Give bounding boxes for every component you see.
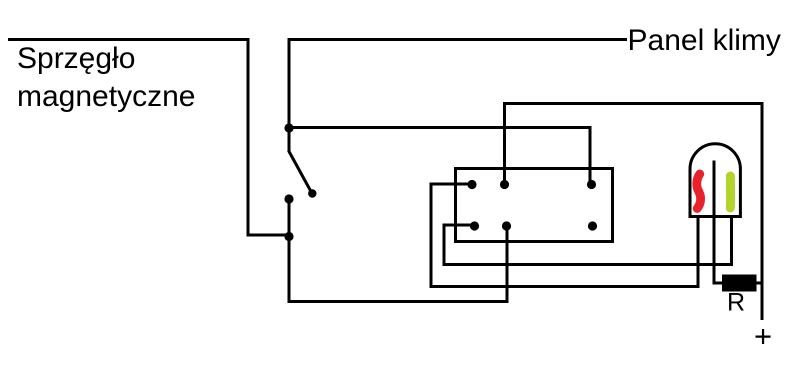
- resistor R body: [723, 275, 757, 291]
- svg-text:Panel klimy: Panel klimy: [628, 24, 781, 57]
- switch S1 common node dot: [284, 123, 293, 132]
- LED D1 red element: [697, 174, 701, 209]
- wire relay pin 5 vertical up: [506, 226, 509, 303]
- svg-text:+: +: [754, 319, 772, 354]
- wire horizontal to LED green lead: [443, 263, 732, 266]
- wire relay pin 2 vertical up: [503, 102, 506, 185]
- wire left vertical down (red lead net): [430, 183, 433, 289]
- LED D1 center electrode: [713, 161, 716, 217]
- wire panel klimy horizontal: [289, 38, 627, 41]
- wire sprzeglo top horizontal: [8, 38, 248, 41]
- node junction switch-sprzeglo dot: [284, 232, 293, 241]
- wire vertical down (green lead net): [443, 224, 446, 266]
- relay pin 3 (top-right): [587, 180, 596, 189]
- wire switch lower contact down to junction: [288, 199, 291, 303]
- wire right rail vertical to plus: [761, 102, 764, 320]
- wire relay pin 4 horizontal left: [444, 224, 475, 227]
- switch S1 lower contact dot: [284, 194, 293, 203]
- wire panel klimy vertical to switch common: [288, 38, 291, 151]
- label Sprzeglo magnetyczne: [17, 42, 195, 113]
- relay pin 1 (top-left): [467, 180, 476, 189]
- relay K1 body: [456, 169, 613, 242]
- relay pin 5 (bottom-middle): [502, 221, 511, 230]
- wire relay pin 1 horizontal left: [431, 183, 472, 186]
- wire LED red lead vertical: [697, 216, 700, 288]
- wire horizontal to LED red lead: [430, 285, 699, 288]
- svg-text:R: R: [727, 289, 745, 317]
- wire LED common lead down to resistor: [714, 216, 724, 283]
- switch S1 lever: [289, 151, 317, 198]
- wire bottom horizontal to relay pin 5: [288, 300, 508, 303]
- relay pin 2 (top-middle): [500, 180, 509, 189]
- wire resistor to right rail: [756, 282, 763, 285]
- wire sprzeglo bottom horizontal to switch: [247, 234, 290, 237]
- LED D1 bulb outline: [690, 144, 740, 217]
- wire LED green lead vertical: [730, 216, 733, 266]
- wire top horizontal pin2 to right rail: [503, 102, 762, 105]
- relay pin 4 (bottom-left): [470, 221, 479, 230]
- svg-text:Sprzęgło: Sprzęgło: [17, 42, 135, 75]
- svg-text:magnetyczne: magnetyczne: [17, 80, 195, 113]
- wire relay pin 3 vertical down: [589, 126, 592, 185]
- wire sprzeglo left vertical: [247, 38, 250, 237]
- LED D1 green element: [726, 176, 735, 208]
- wire switch common to relay pin 3 horizontal: [289, 126, 592, 129]
- relay pin 6 (bottom-right, unconnected): [588, 221, 597, 230]
